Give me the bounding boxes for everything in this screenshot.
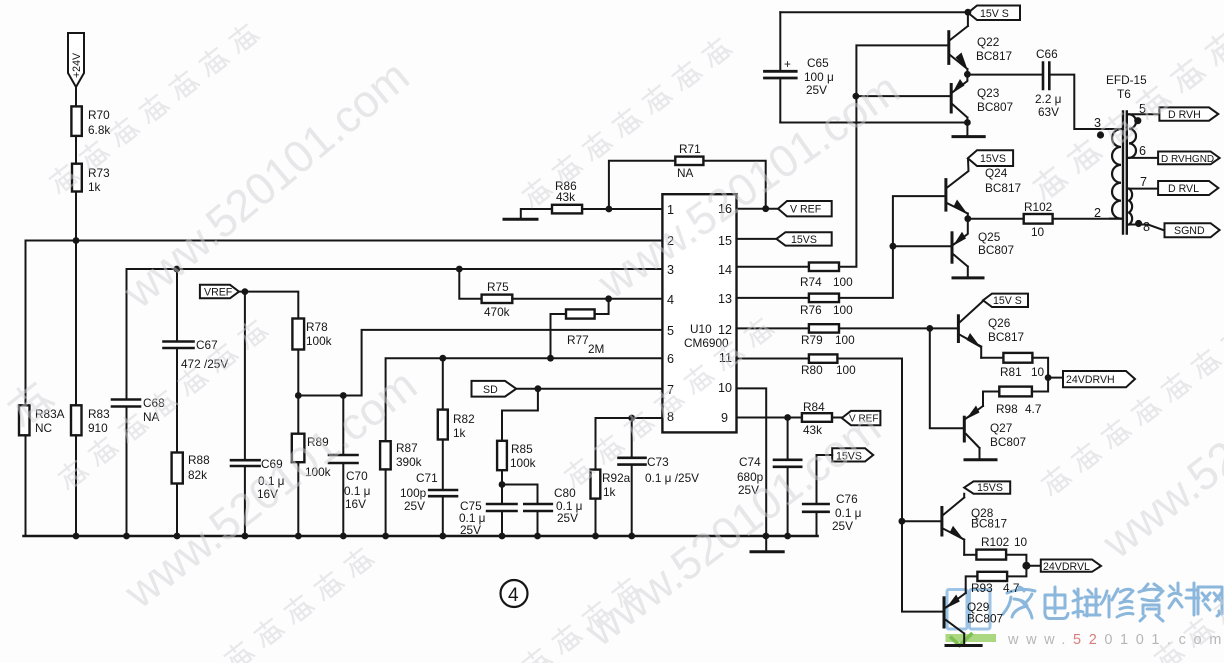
svg-text:10: 10 [1031, 225, 1045, 239]
transistor Q26 BC817 [957, 316, 960, 342]
svg-text:25V: 25V [832, 519, 853, 533]
resistor R81 [1003, 353, 1032, 363]
svg-text:V REF: V REF [790, 204, 822, 216]
svg-text:NC: NC [35, 421, 53, 435]
wire R87 to bus [385, 469, 387, 536]
svg-text:15VS: 15VS [977, 482, 1003, 494]
watermark CJK tile bottom-right [1090, 544, 1224, 663]
transistor Q22 BC817 [947, 32, 950, 64]
svg-text:R70: R70 [88, 108, 110, 122]
svg-text:15V S: 15V S [993, 295, 1022, 307]
node D RVH flag [1159, 107, 1218, 120]
logo char dian [1045, 587, 1068, 619]
svg-text:R98: R98 [996, 402, 1018, 416]
wire pin 11 stub [737, 358, 809, 360]
svg-text:15VS: 15VS [791, 234, 817, 246]
resistor R89 [292, 434, 305, 463]
svg-text:EFD-15: EFD-15 [1106, 73, 1147, 87]
wire R98 left to Q27 [983, 392, 999, 407]
svg-text:10: 10 [1031, 365, 1045, 379]
wire pin 4 line [512, 298, 662, 300]
logo green check [950, 633, 973, 646]
watermark CJK tile top-left [45, 20, 260, 195]
svg-text:R84: R84 [803, 400, 825, 414]
svg-text:63V: 63V [1038, 105, 1059, 119]
wire C73 branch [631, 418, 633, 536]
svg-text:R77: R77 [567, 333, 589, 347]
wire pin 8 line [596, 418, 663, 470]
svg-text:BC817: BC817 [976, 49, 1012, 63]
node 15VS flag at Q24 [968, 150, 1013, 166]
wire 15VS to C76 to bus [817, 455, 833, 536]
wire C67 R88 branch [176, 269, 178, 536]
capacitor C71 [429, 490, 457, 496]
svg-text:BC807: BC807 [978, 243, 1014, 257]
svg-text:BC807: BC807 [990, 435, 1026, 449]
transformer T6 primary winding [1112, 129, 1121, 219]
svg-text:VREF: VREF [204, 287, 233, 299]
resistor R93 [977, 572, 1007, 581]
wire R79 to Q26 base [839, 327, 958, 329]
transistor Q24 BC817 [944, 180, 947, 211]
node 24VDRVL flag [1041, 560, 1101, 572]
wire Q25 base [893, 245, 951, 247]
svg-text:Q27: Q27 [990, 421, 1012, 435]
wire R78 to R89 [297, 350, 299, 434]
svg-text:D RVL: D RVL [1168, 183, 1199, 195]
svg-text:R79: R79 [801, 333, 823, 347]
wire R83A to bus [25, 435, 27, 536]
wire pin 10 to ground [737, 388, 767, 551]
resistor R82 [438, 410, 448, 440]
wire C74 branch [787, 418, 789, 537]
svg-text:SD: SD [483, 384, 498, 396]
svg-text:BC807: BC807 [967, 612, 1003, 626]
node VREF flag pin16 [778, 201, 832, 216]
svg-text:100: 100 [833, 303, 853, 317]
node 15VS flag at Q28 [964, 481, 1010, 493]
wire Q26/Q27 base link [930, 328, 964, 428]
transistor Q28 BC817 [940, 508, 943, 536]
svg-text:C70: C70 [346, 469, 368, 483]
resistor R83 [71, 405, 82, 435]
wire R73 down to pin2 line [75, 192, 77, 241]
svg-text:82k: 82k [188, 468, 207, 482]
svg-text:0.1 μ: 0.1 μ [835, 506, 861, 520]
wire pin 6 line [386, 358, 663, 441]
svg-text:15VS: 15VS [980, 153, 1006, 165]
node D RVL flag [1158, 181, 1218, 195]
logo green band [946, 634, 997, 642]
svg-text:BC817: BC817 [971, 517, 1007, 531]
svg-text:C74: C74 [739, 455, 761, 469]
svg-text:Q25: Q25 [978, 230, 1001, 244]
watermark CJK tile center-bottom [560, 314, 775, 489]
svg-text:D RVHGND: D RVHGND [1161, 154, 1214, 165]
svg-text:D RVH: D RVH [1168, 109, 1201, 121]
wire pin 5 lead to D RVH [1129, 113, 1159, 115]
wire left rail down to R83A [25, 241, 27, 406]
watermark CJK tile bottom-left [160, 544, 375, 663]
wire R70 to R73 [75, 136, 77, 164]
svg-text:24VDRVH: 24VDRVH [1066, 374, 1115, 386]
node +24V supply flag [68, 33, 84, 87]
resistor R77 [566, 309, 595, 318]
wire pin 8 lead to SGND [1129, 225, 1165, 231]
svg-text:4: 4 [508, 585, 519, 606]
capacitor C73 [619, 458, 646, 465]
logo char wei [1073, 589, 1100, 617]
svg-text:15V S: 15V S [980, 8, 1009, 20]
svg-text:9: 9 [721, 411, 728, 425]
node stub bar left of R86 [504, 218, 537, 221]
svg-text:Q24: Q24 [985, 166, 1008, 180]
transistor Q23 BC807 [950, 85, 953, 113]
svg-text:R102: R102 [981, 535, 1009, 549]
wire transformer pin2 lead [1110, 218, 1121, 220]
wire Q28 emitter to R102b [964, 554, 976, 556]
wire R76 up to Q24/Q25 bases [839, 196, 945, 298]
svg-text:100: 100 [836, 363, 856, 377]
resistor R79 [809, 324, 839, 332]
svg-text:C73: C73 [647, 455, 669, 469]
svg-text:13: 13 [718, 292, 732, 306]
svg-text:100p: 100p [400, 486, 427, 500]
wire R102 to transformer pin 2 [1053, 218, 1121, 220]
svg-text:R80: R80 [801, 363, 823, 377]
wire pin 7 lead to D RVL [1129, 188, 1158, 190]
wire R77 right branch [595, 299, 609, 314]
svg-text:910: 910 [88, 421, 108, 435]
svg-text:100: 100 [833, 275, 853, 289]
resistor R73 [72, 164, 82, 192]
capacitor C67 [164, 342, 194, 349]
svg-text:R76: R76 [800, 303, 822, 317]
svg-text:100k: 100k [510, 456, 536, 470]
resistor R85 [497, 441, 507, 470]
svg-text:R75: R75 [487, 280, 509, 294]
transformer T6 secondary lower winding [1129, 189, 1132, 225]
ground pin10 [751, 550, 783, 553]
node transformer phase dots [1097, 131, 1104, 138]
svg-text:10: 10 [718, 381, 732, 395]
svg-text:+: + [784, 57, 791, 71]
svg-text:470k: 470k [484, 305, 510, 319]
wire R73 column down to R83 [75, 241, 77, 406]
svg-text:R92a: R92a [602, 471, 631, 485]
svg-text:Q22: Q22 [977, 35, 999, 49]
wire R81 to 24VDRVH node [1032, 358, 1063, 378]
wire pin 7 line [516, 388, 662, 390]
capacitor C80 [524, 504, 552, 511]
node 15VS flag at C76 [832, 448, 873, 461]
svg-text:R102: R102 [1024, 200, 1052, 214]
svg-text:6: 6 [667, 352, 674, 366]
ground Q27 [965, 458, 996, 461]
wire SD junction down to R85 [502, 389, 538, 441]
wire R80 to Q28/Q29 bases [837, 359, 943, 612]
node VREF flag at R84 [842, 411, 881, 425]
wire Q28 base spur [902, 520, 941, 522]
wire Q24 emitter to R102 [968, 218, 1024, 220]
svg-text:25V: 25V [806, 83, 827, 97]
svg-text:BC807: BC807 [977, 100, 1013, 114]
svg-text:100: 100 [835, 333, 855, 347]
svg-text:C67: C67 [196, 338, 218, 352]
wire C66 to transformer pin 3 [1049, 75, 1121, 129]
svg-text:R82: R82 [453, 412, 475, 426]
resistor R98 [999, 387, 1032, 397]
svg-text:6.8k: 6.8k [88, 123, 110, 137]
wire R92a to bus [595, 499, 597, 536]
svg-text:Q26: Q26 [988, 316, 1011, 330]
svg-text:R73: R73 [88, 166, 110, 180]
svg-text:R93: R93 [971, 581, 993, 595]
wire +24V stem [75, 87, 77, 106]
svg-text:T6: T6 [1117, 87, 1131, 101]
wire R82 to C71 to bus [442, 440, 444, 537]
wire ground bus [24, 535, 818, 538]
wire pin 9 stub [737, 417, 802, 419]
svg-text:7: 7 [1140, 175, 1147, 189]
ground Q29 [946, 644, 981, 647]
wire R74 up to Q22/Q23 bases [839, 45, 948, 266]
capacitor C66 [1043, 63, 1049, 89]
wire R86 left stub [521, 209, 552, 219]
wire R82 branch [442, 358, 444, 409]
logo char wang [1198, 587, 1222, 616]
svg-text:0.1 μ: 0.1 μ [344, 484, 370, 498]
svg-text:R85: R85 [511, 442, 533, 456]
svg-text:BC817: BC817 [988, 330, 1024, 344]
wire R71 left leg [609, 161, 675, 209]
svg-text:6: 6 [1139, 144, 1146, 158]
resistor R83A [19, 405, 30, 435]
svg-text:8: 8 [1143, 220, 1150, 234]
resistor R76 [809, 294, 839, 303]
wire pin 3 line [127, 268, 663, 270]
node junction dots [73, 237, 80, 244]
logo book icon left page [947, 590, 967, 630]
svg-text:25V: 25V [557, 511, 578, 525]
watermark CJK tile center-top [518, 34, 733, 209]
svg-text:25V: 25V [404, 499, 425, 513]
wire pin 6 lead to D RVHGND [1129, 157, 1158, 159]
node 15V S flag top [968, 6, 1020, 21]
capacitor C75 [487, 504, 516, 511]
wire pin 16 to VREF [737, 208, 779, 210]
svg-text:2.2 μ: 2.2 μ [1035, 92, 1061, 106]
transistor Q27 BC807 [963, 417, 966, 441]
svg-text:NA: NA [677, 166, 694, 180]
transistor Q25 BC807 [951, 233, 954, 262]
resistor R102 [1024, 214, 1053, 224]
watermark CJK tile right-mid [1037, 322, 1224, 497]
resistor R86 [552, 205, 582, 214]
node D RVHGND flag [1158, 152, 1220, 165]
watermark CJK char left edge [2, 376, 55, 428]
wire Q26 emitter to R81 [981, 357, 1003, 359]
svg-text:C71: C71 [416, 471, 438, 485]
wire VREF to R78 [239, 292, 298, 319]
wire C68 branch [126, 269, 128, 536]
resistor R80 [809, 354, 838, 362]
svg-text:R78: R78 [306, 320, 328, 334]
svg-text:R87: R87 [396, 441, 418, 455]
node 15VS flag pin15 [776, 232, 831, 245]
wire R85 to C75 junction [501, 470, 503, 536]
svg-text:43k: 43k [556, 190, 575, 204]
watermark CJK tile top-right [1028, 0, 1224, 202]
svg-text:R71: R71 [679, 142, 701, 156]
svg-text:R88: R88 [188, 453, 210, 467]
svg-text:10: 10 [1014, 535, 1028, 549]
wire R89 to bus [297, 462, 299, 536]
node 15V S flag at Q26 [983, 294, 1028, 307]
svg-text:100k: 100k [306, 334, 332, 348]
wire C69 branch [244, 292, 246, 536]
wire R77 left branch to pin6 line [551, 314, 567, 358]
svg-text:4: 4 [667, 293, 674, 307]
resistor R70 [71, 106, 81, 135]
svg-text:C66: C66 [1036, 47, 1058, 61]
capacitor C69 [231, 460, 260, 466]
resistor R75 [482, 295, 513, 303]
svg-text:24VDRVL: 24VDRVL [1043, 561, 1090, 573]
wire pin 2 line [26, 240, 663, 242]
logo char xiu [1101, 589, 1133, 617]
wire R84 to VREF flag [832, 417, 842, 419]
resistor R84 [802, 413, 832, 422]
transistor Q29 BC807 [943, 598, 946, 627]
logo char liao [1169, 583, 1199, 615]
wire pin 5 line [298, 330, 662, 396]
svg-text:4.7: 4.7 [1003, 581, 1019, 595]
wire pin 15 to 15VS [737, 238, 777, 240]
capacitor C68 [112, 400, 140, 407]
svg-text:2M: 2M [588, 342, 604, 356]
svg-text:Q23: Q23 [977, 86, 1000, 100]
wire pin 13 stub [737, 297, 809, 299]
wire R98 right to junction [1032, 378, 1048, 392]
capacitor C70 [329, 455, 358, 463]
svg-text:0.1 μ /25V: 0.1 μ /25V [645, 471, 699, 485]
svg-text:25V: 25V [460, 523, 481, 537]
svg-text:14: 14 [718, 263, 732, 277]
node SD flag [472, 381, 517, 397]
wire C70 branch [342, 396, 344, 537]
wire C80 branch [502, 485, 538, 537]
svg-text:390k: 390k [396, 455, 422, 469]
resistor R87 [380, 441, 391, 469]
capacitor C76 [803, 504, 828, 512]
svg-text:R74: R74 [800, 275, 822, 289]
transformer T6 core [1123, 112, 1127, 234]
wire pin 1 line [582, 208, 662, 210]
wire pin 14 stub [737, 266, 809, 268]
resistor R88 [172, 453, 183, 484]
wire Q22/Q23 output to C66 [967, 74, 1043, 76]
svg-text:BC817: BC817 [985, 181, 1021, 195]
logo char jia [1003, 587, 1035, 618]
resistor R92a [591, 470, 601, 499]
svg-text:+24V: +24V [71, 52, 83, 78]
ground Q23 [953, 135, 984, 138]
svg-text:C80: C80 [554, 486, 576, 500]
wire R93 left to Q29 [966, 576, 978, 593]
node 24VDRVH flag [1063, 371, 1135, 387]
node SGND flag [1165, 223, 1220, 237]
wire R75 drop from pin3 line [459, 269, 481, 299]
svg-text:100 μ: 100 μ [804, 70, 834, 84]
circled 4 page number [501, 580, 528, 607]
wire R83 to bus [75, 435, 77, 536]
logo book icon right page [970, 590, 991, 630]
svg-text:SGND: SGND [1174, 225, 1205, 237]
wire R93 right to junction [1007, 566, 1026, 577]
logo char zi [1139, 584, 1163, 621]
svg-text:R81: R81 [1000, 365, 1022, 379]
svg-text:4.7: 4.7 [1025, 402, 1041, 416]
svg-text:R83: R83 [88, 407, 110, 421]
wire R102b to 24VDRVL node [1006, 555, 1041, 566]
wire R71 right leg [703, 161, 765, 209]
svg-text:1k: 1k [603, 485, 616, 499]
wire pin 12 stub [737, 327, 809, 329]
svg-text:C76: C76 [836, 492, 858, 506]
wire Q23 base [856, 95, 950, 97]
svg-text:12: 12 [718, 323, 732, 337]
svg-text:C65: C65 [807, 56, 829, 70]
svg-text:2: 2 [1094, 206, 1101, 220]
capacitor C65 [765, 71, 797, 78]
resistor R102 lower [976, 550, 1006, 560]
svg-text:3: 3 [1094, 116, 1101, 130]
wire top 15VS rail [780, 11, 968, 13]
resistor R74 [809, 263, 839, 272]
svg-text:1k: 1k [453, 426, 466, 440]
resistor R71 [675, 157, 703, 165]
ground Q25 [953, 276, 983, 279]
node VREF left flag [200, 285, 239, 299]
svg-text:1k: 1k [88, 180, 101, 194]
svg-text:16V: 16V [345, 497, 366, 511]
svg-text:U10: U10 [690, 322, 712, 336]
capacitor C74 [774, 460, 801, 467]
svg-text:5: 5 [667, 324, 674, 338]
transformer T6 secondary upper winding [1129, 114, 1136, 158]
op-amp U10 CM6900 IC body [662, 194, 736, 432]
watermark CJK tile bottom-mid [428, 574, 643, 663]
wire C65 vertical [779, 12, 781, 122]
wire bottom rail C65 to Q23 [780, 122, 967, 124]
resistor R78 [292, 319, 304, 350]
watermark CJK tile mid-left [54, 316, 269, 491]
